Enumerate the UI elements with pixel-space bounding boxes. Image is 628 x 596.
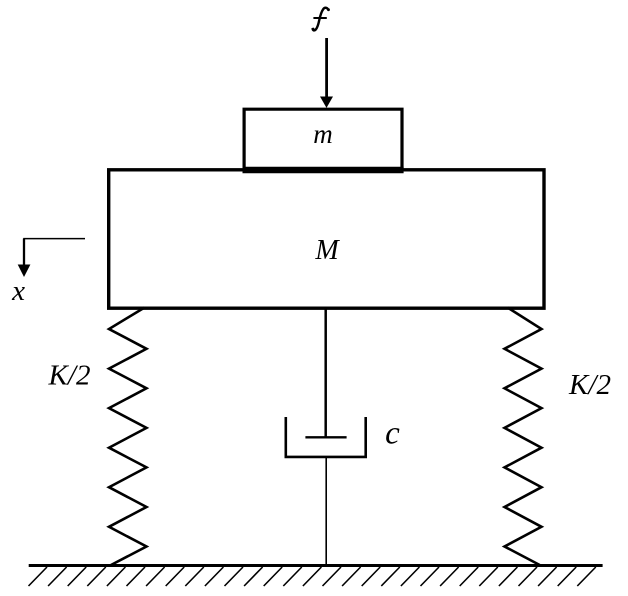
svg-text:M: M [314, 235, 340, 266]
svg-text:K/2: K/2 [48, 360, 91, 392]
svg-text:K/2: K/2 [568, 369, 611, 401]
svg-text:x: x [11, 275, 25, 307]
svg-text:c: c [385, 416, 400, 452]
svg-text:m: m [313, 119, 333, 149]
